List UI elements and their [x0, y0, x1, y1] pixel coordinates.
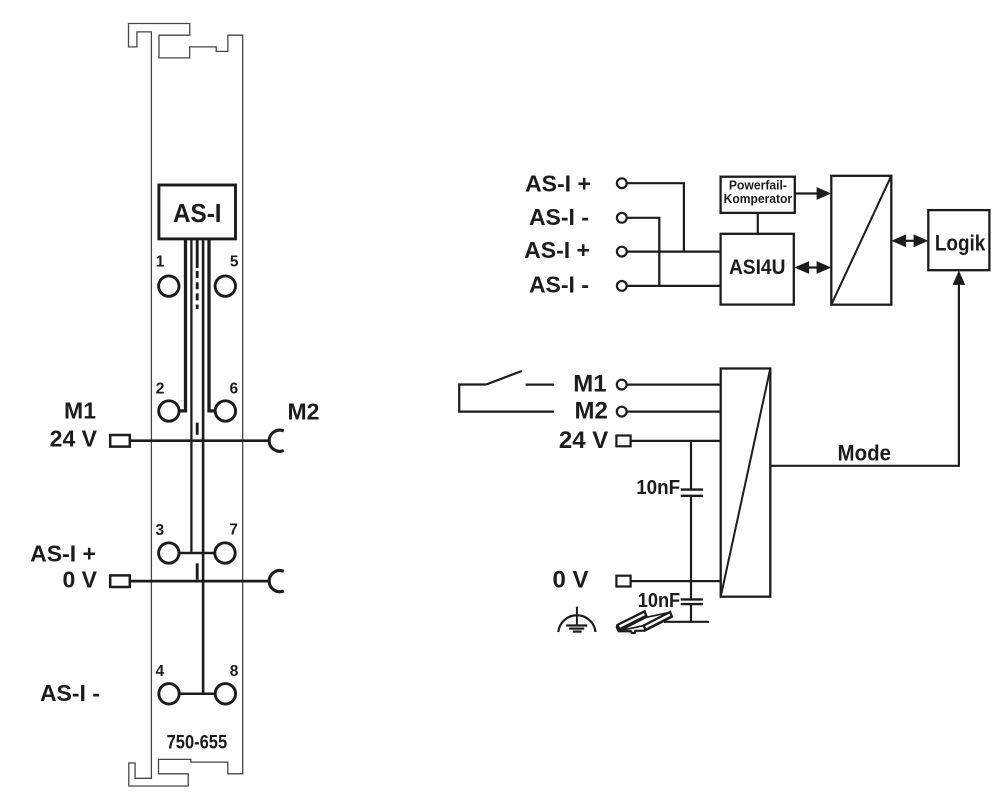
capacitor C1 10nF plates: [681, 488, 703, 490]
wire: link pins 3-7: [179, 552, 215, 555]
isolator U1 box with diagonal: [831, 176, 891, 305]
svg-text:AS-I -: AS-I -: [529, 271, 589, 297]
wire: link pins 4-8: [179, 693, 215, 696]
svg-text:4: 4: [155, 663, 164, 680]
pin 1: [159, 276, 179, 296]
arrow Powerfail to isolator: [795, 192, 819, 194]
svg-text:M1: M1: [64, 397, 96, 423]
svg-text:6: 6: [229, 380, 238, 397]
wire: thick left wire from AS-I box to pin 2: [179, 239, 185, 411]
terminal circle AS-I- (2): [617, 213, 627, 223]
Powerfail-Komperator box: [721, 177, 795, 213]
wire: AS-I- row2 to junction: [627, 218, 660, 286]
pin 5: [215, 276, 235, 296]
wire M1 to transformer: [627, 384, 721, 386]
rail near end bottom with notch: [617, 625, 645, 633]
left flange: [618, 611, 647, 629]
svg-text:M1: M1: [573, 370, 606, 397]
Logik box: [928, 210, 989, 270]
wire: AS-I- row4 into ASI4U: [627, 285, 721, 287]
svg-text:Mode: Mode: [838, 440, 892, 465]
pin 8: [215, 684, 235, 704]
side-contact arc (0V row): [269, 571, 284, 592]
svg-text:8: 8: [230, 663, 239, 680]
svg-text:M2: M2: [288, 398, 320, 424]
svg-text:5: 5: [230, 253, 239, 270]
wire 0V to transformer: [631, 580, 721, 582]
svg-text:Komperator: Komperator: [724, 191, 793, 206]
wire: 24V horizontal wire through module: [130, 439, 269, 442]
svg-text:3: 3: [155, 522, 164, 539]
terminal circle AS-I+ (3): [617, 247, 627, 257]
wire Mode with corner up to Logik: [770, 283, 959, 466]
svg-text:AS-I +: AS-I +: [524, 237, 590, 263]
double arrow isolator - Logik: [903, 240, 917, 242]
svg-text:24 V: 24 V: [50, 426, 98, 452]
capacitor branch vertical wire: [690, 441, 692, 489]
double arrow ASI4U - isolator: [806, 266, 820, 268]
svg-text:7: 7: [229, 522, 238, 539]
svg-text:AS-I +: AS-I +: [525, 170, 591, 196]
wire: dash above 0V wire: [196, 563, 199, 579]
wire: thick right wire from AS-I box to pin 6: [209, 239, 215, 411]
AS-I label box: [159, 185, 236, 239]
DIN rail 3D icon: [617, 611, 672, 633]
terminal square 0V right: [616, 576, 630, 587]
wire: inner wire to pins 3/7 link: [190, 239, 192, 553]
svg-text:M2: M2: [575, 398, 608, 425]
wire M2 to transformer: [627, 411, 721, 413]
channel floor: [620, 612, 670, 630]
svg-text:0 V: 0 V: [62, 566, 97, 592]
pin 6: [215, 401, 235, 421]
wire: dash above 24V wire: [196, 423, 199, 435]
ground symbol: [576, 607, 578, 626]
svg-text:0 V: 0 V: [552, 567, 588, 594]
svg-text:ASI4U: ASI4U: [729, 255, 786, 279]
terminal circle M1: [617, 380, 627, 390]
terminal square 24V left: [110, 435, 130, 447]
svg-text:1: 1: [156, 253, 165, 270]
pin 2: [159, 401, 179, 421]
svg-text:2: 2: [156, 380, 165, 397]
IC ASI4U box: [721, 234, 794, 305]
svg-text:24 V: 24 V: [559, 427, 608, 454]
svg-text:Logik: Logik: [935, 230, 986, 255]
wire: link Powerfail to ASI4U: [757, 213, 759, 234]
wire: inner wire to pins 4/8 link: [202, 239, 205, 694]
capacitor C2 10nF plates: [681, 598, 703, 600]
transformer / isolation box with diagonal: [721, 369, 771, 597]
right flange: [644, 612, 672, 630]
svg-text:10nF: 10nF: [638, 590, 681, 612]
wire: AS-I+ row3 into ASI4U: [627, 251, 721, 253]
switch symbol at M1/M2: [459, 385, 554, 412]
svg-text:AS-I -: AS-I -: [40, 680, 100, 706]
terminal square 0V left: [110, 575, 130, 587]
M2 side-contact arc (24V row): [269, 430, 284, 451]
wire: center dashed data line below AS-I box: [196, 239, 199, 268]
wire: earth rail line: [664, 621, 709, 623]
wire: AS-I+ row1 to junction: [627, 183, 684, 251]
svg-text:AS-I +: AS-I +: [30, 541, 96, 567]
svg-text:AS-I: AS-I: [173, 198, 222, 228]
wire 24V to transformer: [631, 440, 721, 442]
terminal circle AS-I+ (1): [617, 178, 627, 188]
svg-text:750-655: 750-655: [167, 732, 228, 754]
terminal square 24V right: [616, 436, 630, 447]
pin 7: [215, 543, 235, 563]
wire: 0V horizontal wire through module: [130, 580, 269, 583]
pin 4: [159, 684, 179, 704]
svg-text:10nF: 10nF: [636, 477, 680, 499]
terminal circle M2: [617, 407, 627, 417]
module 750-655 body outline: [129, 24, 243, 787]
pin 3: [159, 543, 179, 563]
terminal circle AS-I- (4): [617, 281, 627, 291]
svg-text:AS-I -: AS-I -: [529, 204, 589, 230]
